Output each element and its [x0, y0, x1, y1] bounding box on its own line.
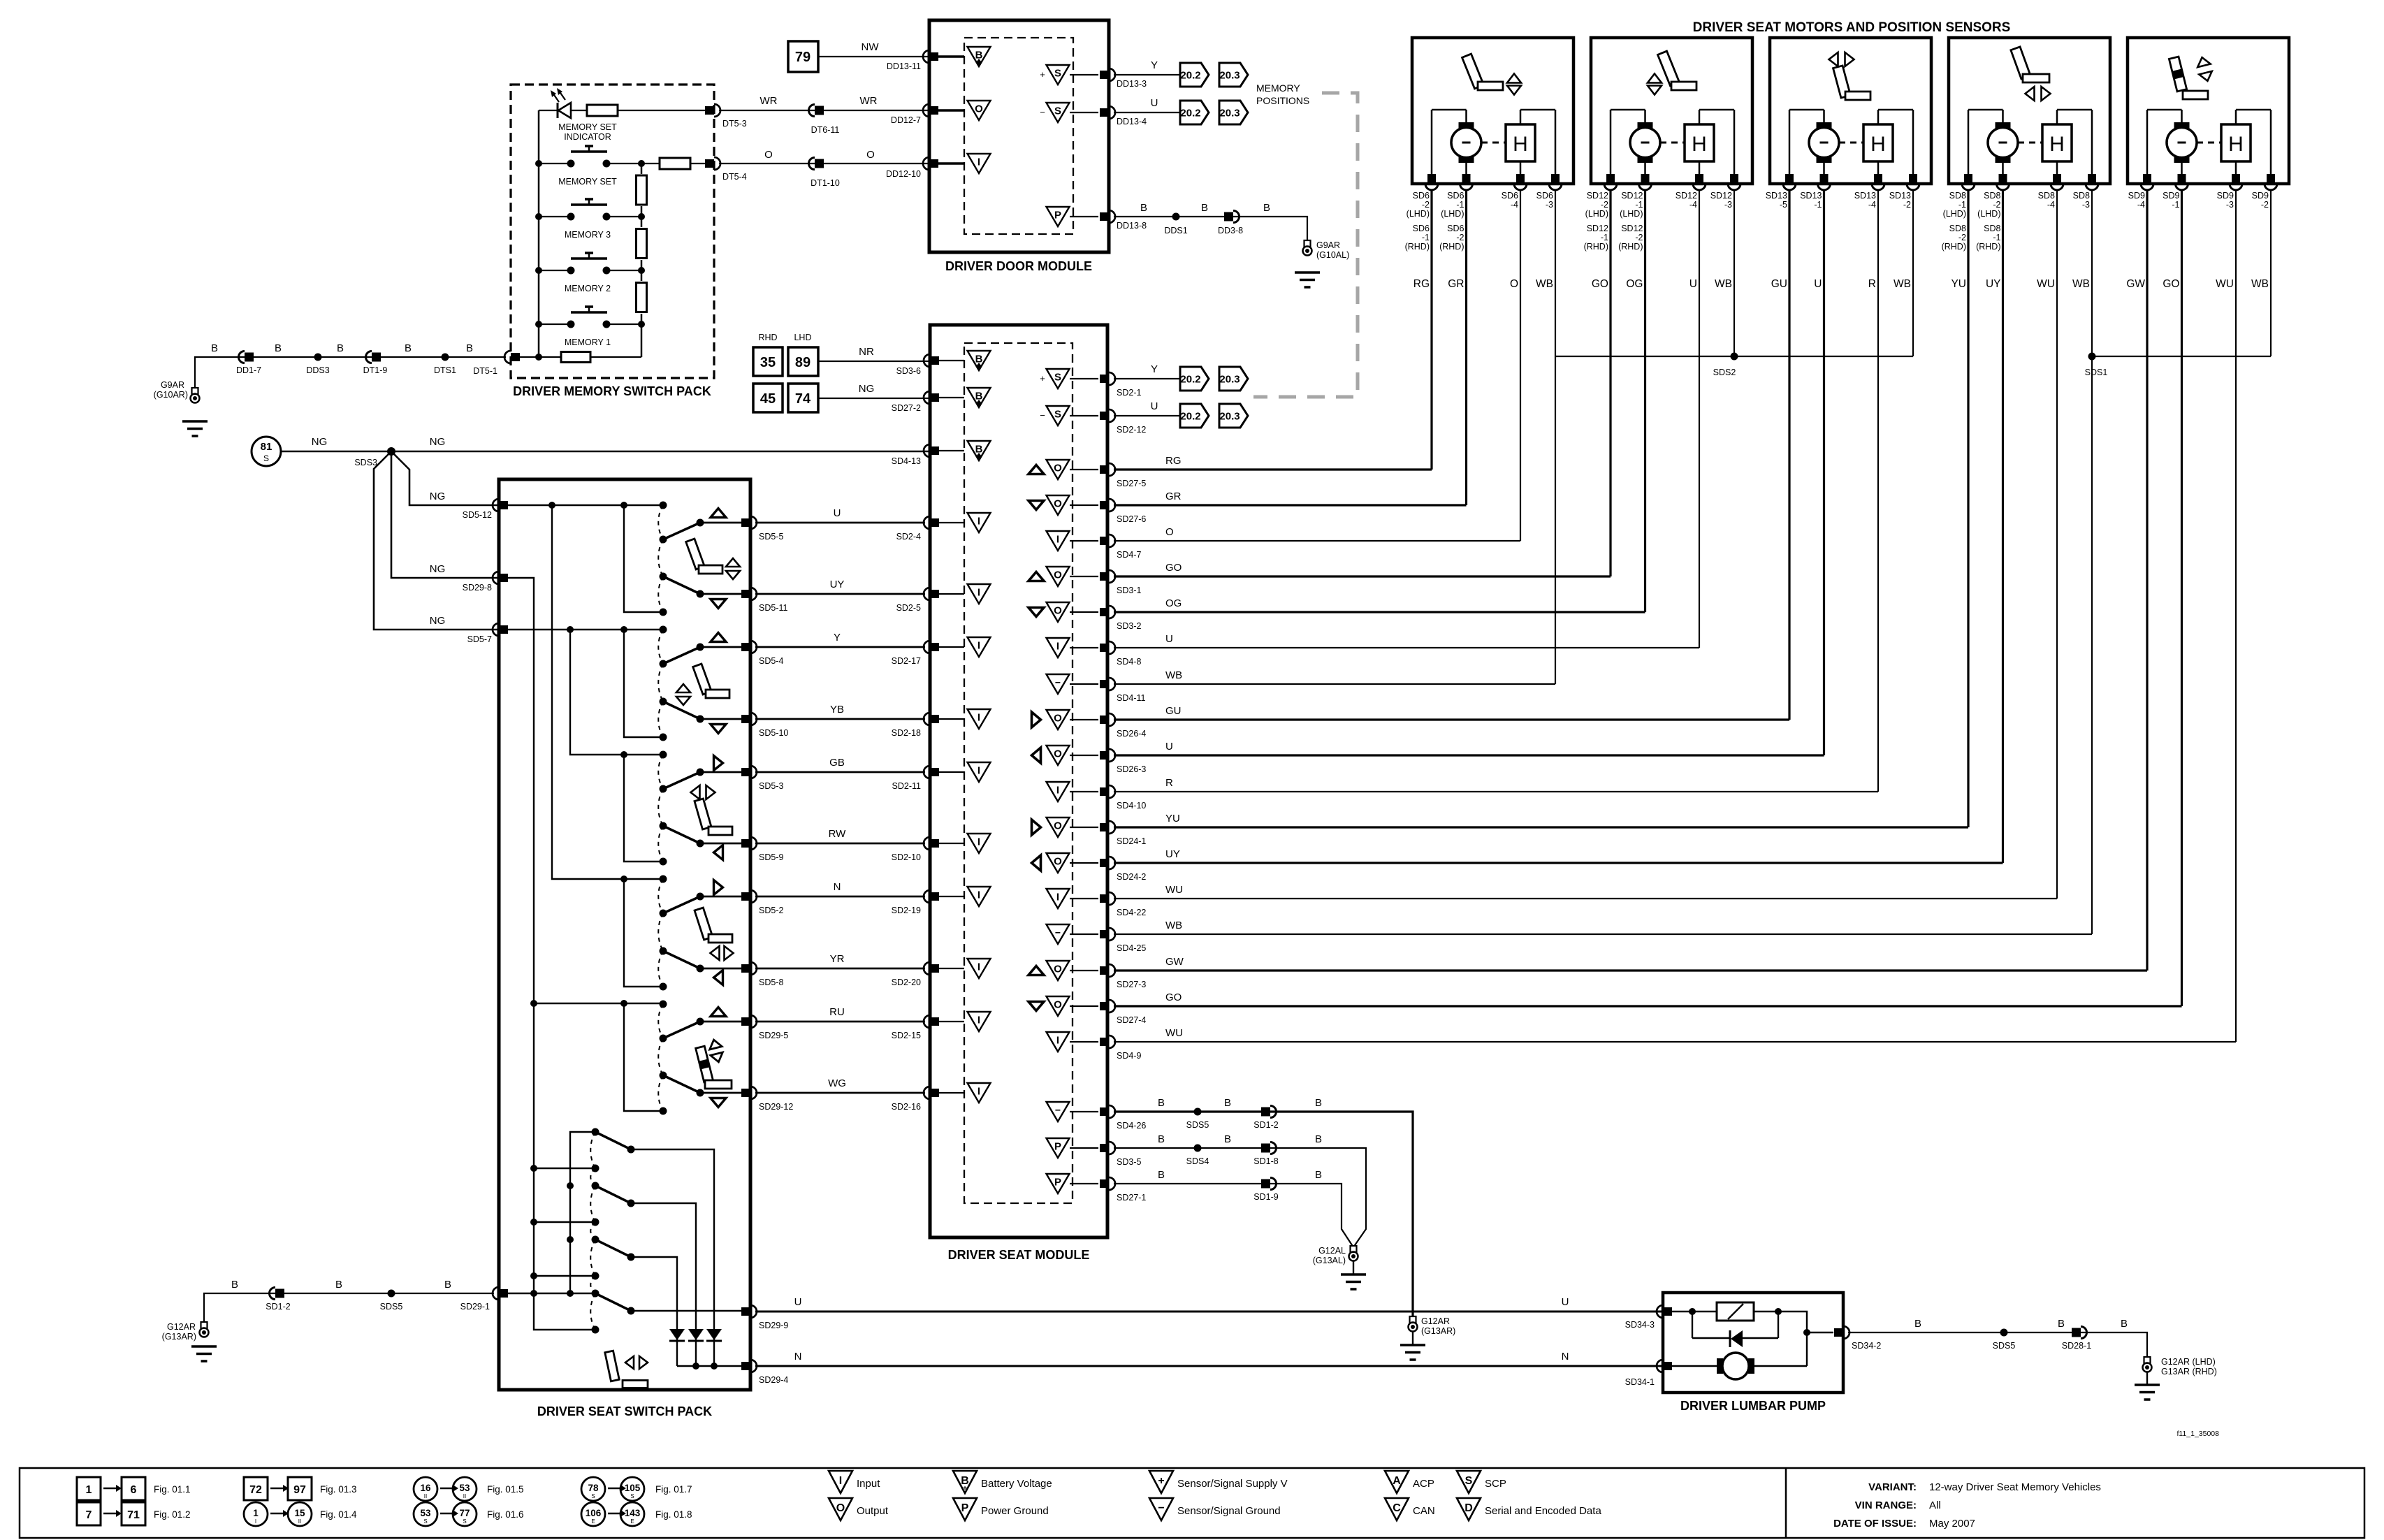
svg-text:R: R — [1868, 278, 1876, 290]
svg-text:SD13: SD13 — [1854, 191, 1876, 201]
svg-text:20.3: 20.3 — [1219, 70, 1240, 82]
svg-text:NG: NG — [430, 436, 446, 448]
svg-text:SD13: SD13 — [1889, 191, 1911, 201]
svg-text:I: I — [1056, 785, 1059, 797]
svg-text:SD27-1: SD27-1 — [1117, 1193, 1146, 1203]
svg-text:SDS2: SDS2 — [1713, 368, 1736, 377]
svg-text:1: 1 — [253, 1508, 259, 1518]
svg-text:20.2: 20.2 — [1180, 411, 1200, 423]
svg-text:YB: YB — [830, 704, 844, 715]
svg-text:143: 143 — [625, 1508, 641, 1518]
svg-text:SDS4: SDS4 — [1186, 1156, 1209, 1166]
svg-text:NW: NW — [862, 41, 880, 53]
svg-text:SD2-19: SD2-19 — [892, 906, 921, 915]
svg-text:SD1-9: SD1-9 — [1253, 1192, 1278, 1202]
svg-text:(LHD): (LHD) — [1620, 209, 1643, 219]
svg-text:SD2-15: SD2-15 — [892, 1031, 921, 1040]
svg-text:OG: OG — [1626, 278, 1643, 290]
svg-text:U: U — [834, 507, 841, 519]
svg-text:G12AR: G12AR — [1421, 1316, 1450, 1326]
svg-text:MEMORY: MEMORY — [1256, 82, 1300, 94]
svg-text:WU: WU — [1165, 884, 1183, 896]
svg-text:15: 15 — [294, 1508, 305, 1518]
svg-text:G9AR: G9AR — [1316, 240, 1340, 250]
svg-text:SD6: SD6 — [1447, 224, 1464, 233]
svg-text:C: C — [1393, 1502, 1401, 1514]
svg-text:SD13: SD13 — [1766, 191, 1787, 201]
svg-text:(RHD): (RHD) — [1439, 242, 1464, 252]
svg-text:71: 71 — [127, 1509, 140, 1521]
svg-text:Y: Y — [1151, 59, 1158, 71]
svg-text:SD4-11: SD4-11 — [1117, 693, 1146, 703]
svg-text:SD12: SD12 — [1587, 191, 1608, 201]
svg-text:E: E — [591, 1518, 595, 1525]
svg-text:12-way Driver Seat Memory Vehi: 12-way Driver Seat Memory Vehicles — [1929, 1481, 2101, 1493]
svg-text:SD1-8: SD1-8 — [1253, 1156, 1278, 1166]
svg-text:G12AR (LHD): G12AR (LHD) — [2161, 1357, 2216, 1367]
svg-text:-3: -3 — [2082, 200, 2090, 210]
svg-text:−: − — [1055, 677, 1061, 688]
svg-text:I: I — [255, 1518, 256, 1525]
svg-text:−: − — [1040, 410, 1045, 421]
svg-text:(G13AR): (G13AR) — [1421, 1326, 1455, 1336]
svg-text:MEMORY SET: MEMORY SET — [558, 177, 617, 187]
svg-text:SD12: SD12 — [1710, 191, 1732, 201]
svg-text:DTS1: DTS1 — [434, 365, 456, 375]
svg-text:SD5-3: SD5-3 — [759, 781, 783, 791]
svg-text:SD12: SD12 — [1676, 191, 1697, 201]
svg-text:DD13-8: DD13-8 — [1117, 221, 1147, 231]
svg-text:SD1-2: SD1-2 — [1253, 1120, 1278, 1130]
svg-text:Sensor/Signal Supply V: Sensor/Signal Supply V — [1177, 1478, 1288, 1490]
svg-text:-2: -2 — [1903, 200, 1911, 210]
svg-text:H: H — [1870, 133, 1886, 156]
svg-text:SDS1: SDS1 — [2085, 368, 2108, 377]
svg-text:S: S — [463, 1518, 466, 1525]
svg-text:O: O — [1165, 526, 1174, 538]
svg-text:NG: NG — [430, 563, 446, 575]
svg-text:B: B — [1224, 1097, 1231, 1109]
svg-text:+: + — [1040, 373, 1045, 384]
svg-text:VIN RANGE:: VIN RANGE: — [1855, 1499, 1917, 1511]
svg-text:-1: -1 — [1993, 233, 2000, 242]
svg-text:RG: RG — [1165, 455, 1182, 467]
svg-text:RW: RW — [829, 828, 847, 840]
svg-text:-1: -1 — [1456, 200, 1464, 210]
svg-text:(G13AR): (G13AR) — [162, 1332, 196, 1342]
svg-text:WR: WR — [860, 95, 878, 107]
svg-text:DT6-11: DT6-11 — [811, 125, 840, 135]
svg-text:WR: WR — [760, 95, 778, 107]
svg-text:GW: GW — [1165, 956, 1184, 968]
svg-text:I: I — [977, 765, 980, 777]
svg-text:SD4-10: SD4-10 — [1117, 801, 1146, 811]
svg-text:-4: -4 — [1511, 200, 1518, 210]
svg-text:I: I — [977, 836, 980, 848]
svg-text:O: O — [1054, 820, 1062, 832]
svg-text:SD3-6: SD3-6 — [896, 366, 921, 376]
svg-text:SD8: SD8 — [1984, 224, 2000, 233]
svg-text:SD34-1: SD34-1 — [1625, 1377, 1655, 1387]
svg-text:B: B — [1263, 202, 1270, 214]
svg-text:20.2: 20.2 — [1180, 70, 1200, 82]
svg-text:20.2: 20.2 — [1180, 374, 1200, 386]
svg-text:B: B — [231, 1279, 238, 1291]
svg-text:O: O — [1054, 748, 1062, 760]
svg-text:SD27-5: SD27-5 — [1117, 479, 1146, 488]
svg-text:−: − — [1040, 107, 1045, 117]
svg-text:B: B — [1315, 1133, 1322, 1145]
svg-text:I: I — [1056, 1035, 1059, 1047]
svg-text:UY: UY — [830, 579, 845, 590]
svg-text:SD2-11: SD2-11 — [892, 781, 922, 791]
svg-text:f11_1_35008: f11_1_35008 — [2176, 1430, 2219, 1438]
svg-text:−: − — [1158, 1502, 1164, 1514]
svg-text:SD6: SD6 — [1413, 191, 1430, 201]
svg-text:SCP: SCP — [1485, 1478, 1506, 1490]
svg-text:O: O — [1054, 964, 1062, 975]
svg-text:7: 7 — [86, 1509, 92, 1521]
svg-text:GR: GR — [1165, 491, 1182, 502]
svg-text:−: − — [1055, 1105, 1061, 1116]
svg-text:+: + — [1158, 1475, 1164, 1487]
svg-text:May 2007: May 2007 — [1929, 1518, 1975, 1530]
svg-text:SD3-5: SD3-5 — [1117, 1157, 1141, 1167]
svg-text:SD5-5: SD5-5 — [759, 532, 783, 542]
svg-text:-2: -2 — [1422, 200, 1430, 210]
svg-text:I: I — [977, 961, 980, 973]
svg-text:H: H — [2049, 133, 2065, 156]
svg-text:DRIVER LUMBAR PUMP: DRIVER LUMBAR PUMP — [1680, 1399, 1826, 1413]
svg-text:N: N — [1562, 1351, 1569, 1363]
svg-text:RG: RG — [1413, 278, 1430, 290]
svg-text:P: P — [1054, 210, 1061, 221]
svg-text:S: S — [423, 1518, 427, 1525]
svg-text:DT5-4: DT5-4 — [722, 172, 747, 182]
svg-text:O: O — [836, 1502, 845, 1514]
svg-text:I: I — [977, 1015, 980, 1026]
svg-text:SD2-1: SD2-1 — [1117, 388, 1141, 398]
svg-text:R: R — [1165, 777, 1173, 789]
svg-text:SD3-1: SD3-1 — [1117, 586, 1141, 595]
svg-text:SD4-25: SD4-25 — [1117, 943, 1146, 953]
svg-text:S: S — [1054, 409, 1061, 421]
svg-text:B: B — [1914, 1318, 1921, 1330]
svg-text:SD9: SD9 — [2217, 191, 2234, 201]
svg-text:(RHD): (RHD) — [1976, 242, 2000, 252]
svg-text:II: II — [463, 1493, 466, 1499]
svg-text:U: U — [1814, 278, 1822, 290]
svg-text:78: 78 — [588, 1483, 599, 1493]
svg-text:H: H — [2228, 133, 2244, 156]
svg-text:-4: -4 — [1689, 200, 1697, 210]
svg-text:SD8: SD8 — [1984, 191, 2000, 201]
svg-text:N: N — [834, 881, 841, 893]
svg-text:DD13-4: DD13-4 — [1117, 117, 1147, 126]
svg-text:45: 45 — [760, 391, 776, 407]
svg-text:S: S — [591, 1493, 595, 1499]
svg-text:SD26-4: SD26-4 — [1117, 729, 1146, 739]
svg-text:MEMORY 3: MEMORY 3 — [565, 230, 611, 240]
svg-text:D: D — [1464, 1502, 1473, 1514]
svg-text:97: 97 — [293, 1484, 306, 1496]
svg-text:O: O — [1054, 569, 1062, 581]
svg-text:−: − — [1055, 927, 1061, 938]
svg-text:-1: -1 — [1814, 200, 1822, 210]
svg-text:WB: WB — [1715, 278, 1732, 290]
svg-text:GW: GW — [2126, 278, 2145, 290]
svg-text:20.3: 20.3 — [1219, 411, 1240, 423]
svg-text:Fig. 01.6: Fig. 01.6 — [487, 1509, 524, 1520]
svg-text:-3: -3 — [1724, 200, 1732, 210]
svg-text:SD5-8: SD5-8 — [759, 978, 783, 987]
svg-text:-1: -1 — [2172, 200, 2179, 210]
svg-text:DD3-8: DD3-8 — [1218, 226, 1243, 235]
svg-text:B: B — [275, 342, 282, 354]
svg-text:SD1-2: SD1-2 — [266, 1302, 290, 1312]
svg-text:DD1-7: DD1-7 — [236, 365, 261, 375]
svg-text:72: 72 — [249, 1484, 262, 1496]
svg-text:Fig. 01.3: Fig. 01.3 — [320, 1484, 357, 1495]
svg-text:CAN: CAN — [1413, 1505, 1435, 1517]
svg-text:Power Ground: Power Ground — [981, 1505, 1049, 1517]
svg-text:SD29-9: SD29-9 — [759, 1321, 788, 1330]
svg-text:H: H — [1513, 133, 1528, 156]
svg-text:I: I — [977, 516, 980, 528]
svg-text:WB: WB — [1894, 278, 1911, 290]
svg-text:I: I — [977, 712, 980, 724]
svg-text:S: S — [263, 453, 269, 463]
svg-text:SD5-12: SD5-12 — [463, 510, 492, 520]
svg-text:GU: GU — [1771, 278, 1787, 290]
svg-text:GO: GO — [1592, 278, 1608, 290]
svg-text:SD27-2: SD27-2 — [892, 403, 921, 413]
svg-text:(G10AL): (G10AL) — [1316, 250, 1349, 260]
svg-text:SD6: SD6 — [1447, 191, 1464, 201]
svg-text:SD12: SD12 — [1621, 191, 1643, 201]
svg-text:O: O — [866, 149, 875, 161]
svg-text:DDS3: DDS3 — [306, 365, 329, 375]
svg-text:O: O — [975, 103, 983, 115]
svg-text:DD13-3: DD13-3 — [1117, 79, 1147, 89]
svg-text:U: U — [1165, 741, 1173, 753]
svg-text:I: I — [1056, 641, 1059, 653]
svg-text:Fig. 01.4: Fig. 01.4 — [320, 1509, 357, 1520]
svg-text:SD4-22: SD4-22 — [1117, 908, 1146, 917]
svg-text:SD34-3: SD34-3 — [1625, 1320, 1655, 1330]
svg-text:B: B — [335, 1279, 342, 1291]
svg-text:105: 105 — [625, 1483, 641, 1493]
svg-text:WB: WB — [1165, 669, 1182, 681]
svg-text:SD6: SD6 — [1536, 191, 1553, 201]
svg-text:SD2-20: SD2-20 — [892, 978, 921, 987]
svg-text:SD4-7: SD4-7 — [1117, 550, 1141, 560]
svg-text:G13AR (RHD): G13AR (RHD) — [2161, 1367, 2217, 1376]
svg-text:SD24-2: SD24-2 — [1117, 872, 1146, 882]
svg-text:B: B — [211, 342, 218, 354]
svg-text:DRIVER DOOR MODULE: DRIVER DOOR MODULE — [945, 259, 1092, 273]
svg-text:S: S — [1465, 1475, 1473, 1487]
svg-text:(LHD): (LHD) — [1441, 209, 1464, 219]
svg-text:P: P — [1054, 1141, 1061, 1153]
svg-text:S: S — [630, 1493, 634, 1499]
svg-text:WG: WG — [828, 1077, 846, 1089]
svg-text:DT1-9: DT1-9 — [363, 365, 388, 375]
svg-text:SD2-12: SD2-12 — [1117, 425, 1146, 435]
svg-text:SD27-4: SD27-4 — [1117, 1015, 1146, 1025]
svg-text:-2: -2 — [1635, 233, 1643, 242]
svg-text:6: 6 — [131, 1484, 137, 1496]
svg-text:DRIVER SEAT MODULE: DRIVER SEAT MODULE — [948, 1248, 1090, 1262]
svg-text:O: O — [1054, 463, 1062, 474]
svg-text:SD2-4: SD2-4 — [896, 532, 921, 542]
svg-text:SDS5: SDS5 — [380, 1302, 403, 1312]
svg-text:Battery Voltage: Battery Voltage — [981, 1478, 1052, 1490]
svg-text:-1: -1 — [1635, 200, 1643, 210]
svg-text:(G13AL): (G13AL) — [1313, 1256, 1346, 1265]
svg-text:WU: WU — [2037, 278, 2055, 290]
svg-text:II: II — [424, 1493, 427, 1499]
svg-text:P: P — [1054, 1177, 1061, 1189]
svg-text:DD12-7: DD12-7 — [891, 115, 921, 125]
svg-text:E: E — [630, 1518, 634, 1525]
svg-text:SD29-12: SD29-12 — [759, 1102, 793, 1112]
svg-text:I: I — [1056, 892, 1059, 903]
svg-text:B: B — [1224, 1133, 1231, 1145]
svg-text:SD2-18: SD2-18 — [892, 728, 921, 738]
svg-text:SD5-4: SD5-4 — [759, 656, 783, 666]
svg-text:YU: YU — [1951, 278, 1966, 290]
svg-text:GO: GO — [2163, 278, 2179, 290]
svg-text:(RHD): (RHD) — [1618, 242, 1643, 252]
svg-text:SD27-3: SD27-3 — [1117, 980, 1146, 989]
svg-text:SD12: SD12 — [1621, 224, 1643, 233]
svg-text:1: 1 — [86, 1484, 92, 1496]
svg-text:U: U — [794, 1296, 802, 1308]
svg-text:SDS3: SDS3 — [354, 458, 377, 467]
svg-text:81: 81 — [261, 441, 272, 453]
svg-text:GB: GB — [829, 757, 845, 769]
svg-text:O: O — [1054, 605, 1062, 617]
svg-text:B: B — [2121, 1318, 2128, 1330]
svg-text:-4: -4 — [2047, 200, 2055, 210]
svg-text:+: + — [963, 1485, 967, 1492]
svg-text:SD8: SD8 — [2038, 191, 2055, 201]
svg-text:20.3: 20.3 — [1219, 108, 1240, 119]
svg-text:I: I — [977, 889, 980, 901]
svg-text:(RHD): (RHD) — [1405, 242, 1430, 252]
svg-text:NR: NR — [859, 346, 874, 358]
svg-text:INDICATOR: INDICATOR — [564, 132, 611, 142]
svg-text:WB: WB — [2251, 278, 2269, 290]
svg-text:DRIVER MEMORY SWITCH PACK: DRIVER MEMORY SWITCH PACK — [513, 384, 711, 398]
svg-text:SD9: SD9 — [2252, 191, 2269, 201]
svg-text:(LHD): (LHD) — [1407, 209, 1430, 219]
svg-text:-1: -1 — [1422, 233, 1430, 242]
svg-text:WB: WB — [1536, 278, 1553, 290]
svg-text:SD26-3: SD26-3 — [1117, 764, 1146, 774]
svg-text:WB: WB — [1165, 920, 1182, 931]
svg-text:SD3-2: SD3-2 — [1117, 621, 1141, 631]
svg-text:NG: NG — [430, 615, 446, 627]
svg-text:53: 53 — [459, 1483, 470, 1493]
svg-text:SD27-6: SD27-6 — [1117, 514, 1146, 524]
svg-text:All: All — [1929, 1499, 1941, 1511]
svg-text:-2: -2 — [1993, 200, 2000, 210]
svg-text:UY: UY — [1165, 848, 1180, 860]
svg-text:U: U — [1562, 1296, 1569, 1308]
svg-text:I: I — [977, 587, 980, 599]
svg-text:Fig. 01.7: Fig. 01.7 — [655, 1484, 692, 1495]
svg-text:-4: -4 — [2137, 200, 2145, 210]
svg-text:Fig. 01.5: Fig. 01.5 — [487, 1484, 524, 1495]
svg-text:(RHD): (RHD) — [1942, 242, 1966, 252]
svg-text:B: B — [1158, 1097, 1165, 1109]
svg-text:S: S — [1054, 106, 1061, 117]
svg-text:SD6: SD6 — [1413, 224, 1430, 233]
svg-text:SD5-2: SD5-2 — [759, 906, 783, 915]
svg-text:79: 79 — [795, 50, 811, 65]
svg-text:SD5-11: SD5-11 — [759, 603, 788, 613]
svg-text:B: B — [466, 342, 473, 354]
svg-text:Fig. 01.2: Fig. 01.2 — [154, 1509, 191, 1520]
svg-text:SD29-4: SD29-4 — [759, 1375, 788, 1385]
svg-text:II: II — [298, 1518, 301, 1525]
svg-text:DT5-3: DT5-3 — [722, 119, 747, 129]
svg-text:B: B — [1140, 202, 1147, 214]
svg-text:B: B — [1201, 202, 1208, 214]
svg-text:U: U — [1165, 633, 1173, 645]
svg-text:B: B — [1158, 1169, 1165, 1181]
svg-text:SD8: SD8 — [2073, 191, 2090, 201]
svg-text:G12AL: G12AL — [1318, 1246, 1346, 1256]
svg-text:B: B — [1158, 1133, 1165, 1145]
svg-text:+: + — [1040, 69, 1045, 80]
svg-text:GO: GO — [1165, 991, 1182, 1003]
svg-text:53: 53 — [420, 1508, 431, 1518]
svg-text:77: 77 — [459, 1508, 470, 1518]
svg-text:-2: -2 — [2261, 200, 2269, 210]
svg-text:B: B — [405, 342, 412, 354]
svg-text:O: O — [1054, 498, 1062, 510]
svg-text:SD13: SD13 — [1800, 191, 1822, 201]
svg-text:(LHD): (LHD) — [1585, 209, 1608, 219]
svg-text:Y: Y — [1151, 363, 1158, 375]
svg-text:O: O — [764, 149, 773, 161]
svg-text:ACP: ACP — [1413, 1478, 1434, 1490]
svg-text:SD29-8: SD29-8 — [463, 583, 492, 593]
svg-text:SD8: SD8 — [1949, 191, 1966, 201]
svg-text:WB: WB — [2072, 278, 2090, 290]
svg-text:GU: GU — [1165, 705, 1182, 717]
svg-text:POSITIONS: POSITIONS — [1256, 95, 1309, 106]
svg-text:U: U — [1689, 278, 1697, 290]
svg-text:DD12-10: DD12-10 — [886, 169, 921, 179]
svg-text:SD24-1: SD24-1 — [1117, 836, 1146, 846]
svg-text:B: B — [2058, 1318, 2065, 1330]
svg-text:RHD: RHD — [758, 333, 777, 342]
svg-text:MEMORY 2: MEMORY 2 — [565, 284, 611, 293]
svg-text:S: S — [1054, 68, 1061, 80]
svg-text:NG: NG — [430, 491, 446, 502]
svg-text:SD29-1: SD29-1 — [460, 1302, 490, 1312]
svg-text:O: O — [1054, 713, 1062, 725]
svg-text:(LHD): (LHD) — [1977, 209, 2000, 219]
svg-text:SD4-13: SD4-13 — [892, 456, 921, 466]
svg-text:I: I — [977, 640, 980, 652]
svg-text:Fig. 01.8: Fig. 01.8 — [655, 1509, 692, 1520]
svg-text:SD2-16: SD2-16 — [892, 1102, 921, 1112]
